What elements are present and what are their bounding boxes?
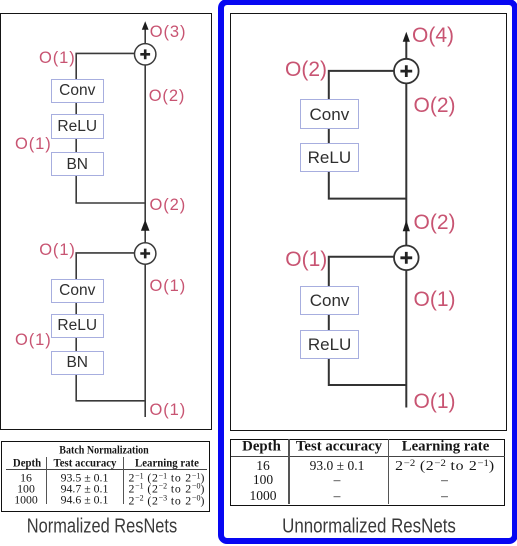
right ReLU box (lower block): [300, 330, 359, 359]
label O(1) right skip lower: [414, 289, 456, 310]
label O(2) right top branch: [285, 59, 327, 80]
left results table border: [1, 441, 210, 512]
label O(2) left junction: [150, 197, 187, 214]
right lower add node: [394, 245, 419, 270]
left table header Learning rate: [135, 455, 199, 470]
label O(1) left top branch: [39, 50, 76, 67]
left table header rule: [6, 469, 207, 470]
right table row2 acc: [334, 472, 341, 488]
left table row1 acc: [61, 470, 109, 485]
left ReLU box (top block): [51, 114, 104, 139]
right table row3 depth: [250, 488, 277, 504]
left table header Test accuracy: [54, 455, 117, 470]
left table title: [59, 442, 148, 457]
left table row3 acc: [61, 493, 109, 508]
right Conv box (lower block): [300, 286, 359, 315]
right table row1 acc: [310, 458, 365, 474]
left table column bar 1: [46, 457, 47, 504]
right ReLU box (top block): [300, 143, 358, 172]
right table header Test accuracy: [296, 439, 382, 456]
left panel border: [0, 13, 212, 431]
right mid arrowhead: [403, 220, 410, 231]
label O(2) left skip upper: [149, 88, 186, 105]
right table row3 acc: [334, 488, 341, 504]
label O(1) right lower branch top: [285, 249, 327, 270]
label O(1) left lower mid branch: [15, 332, 52, 349]
left lower add node: [135, 243, 156, 264]
label O(3) left top: [150, 24, 187, 41]
label O(1) left mid branch: [15, 136, 52, 153]
left table row3 depth: [14, 493, 38, 508]
right panel inner black border: [230, 13, 507, 431]
left lower block branch wire: [76, 253, 145, 401]
left ReLU box (lower block): [51, 314, 104, 338]
left table row1 depth: [20, 470, 32, 485]
left table row2 acc: [61, 481, 109, 496]
left BN box (top block): [51, 152, 104, 176]
label O(2) right skip upper: [414, 95, 456, 116]
label O(1) right bottom: [414, 391, 456, 412]
right top output arrowhead: [403, 32, 410, 42]
right table column bar 2: [388, 439, 389, 504]
left BN box (lower block): [51, 351, 104, 375]
left table column bar 2: [123, 457, 124, 504]
caption Normalized ResNets: [27, 516, 177, 539]
left Conv box (lower block): [51, 279, 104, 303]
right table row2 depth: [253, 472, 273, 488]
left top add node: [135, 44, 156, 65]
right top block branch wire: [329, 71, 407, 199]
label O(1) left lower branch top: [39, 242, 76, 259]
left table row2 lr: [128, 481, 205, 496]
left table header Depth: [12, 455, 40, 470]
right main vertical wire: [405, 41, 407, 408]
left table row1 lr: [128, 471, 205, 486]
left main vertical wire: [144, 30, 146, 418]
right Conv box (top block): [300, 99, 358, 129]
right table row1 depth: [256, 458, 270, 474]
right table column bar 1: [288, 439, 289, 504]
right table row1 lr: [395, 458, 495, 474]
right top add node: [394, 59, 419, 84]
right table row2 lr: [441, 472, 448, 488]
right lower block branch wire: [329, 257, 407, 385]
left mid arrowhead: [141, 220, 150, 231]
right table header Depth: [242, 439, 281, 456]
left Conv box (top block): [51, 79, 104, 104]
caption Unnormalized ResNets: [282, 515, 456, 538]
label O(2) right junction: [414, 212, 456, 233]
right results table border: [230, 439, 506, 506]
left table row3 lr: [128, 493, 205, 508]
blue frame (right panel): [218, 0, 517, 544]
label O(1) left skip lower: [150, 278, 187, 295]
right table row3 lr: [441, 488, 448, 504]
label O(4) right top: [412, 25, 454, 46]
left top block branch wire: [76, 53, 145, 203]
left top output arrowhead: [142, 21, 149, 30]
left table row2 depth: [17, 481, 35, 496]
right table header Learning rate: [402, 439, 490, 456]
label O(1) left bottom: [150, 402, 187, 419]
right table header rule: [231, 456, 505, 457]
